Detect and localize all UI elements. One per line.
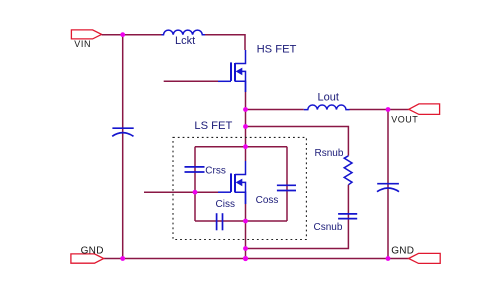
wire snubber tap: [246, 127, 349, 156]
wire Lout to VOUT: [350, 109, 409, 111]
capacitor Ciss: [216, 199, 235, 231]
wire VIN junction down to GND rail: [122, 35, 124, 259]
capacitor Crss: [185, 166, 226, 177]
junction LS loop top node: [243, 144, 248, 149]
terminal GND left: [71, 245, 104, 263]
junction LS gate node: [193, 190, 198, 195]
resistor Rsnub: [315, 148, 353, 185]
inductor Lout: [304, 92, 350, 110]
svg-text:LS FET: LS FET: [194, 120, 232, 132]
wire LS loop right branch: [286, 147, 288, 221]
junction GND left node: [120, 256, 125, 261]
capacitor input (Cin): [112, 128, 134, 136]
transistor LS FET: [218, 161, 246, 204]
capacitor Coss: [256, 185, 296, 206]
junction VOUT node: [386, 107, 391, 112]
svg-text:HS FET: HS FET: [257, 44, 297, 56]
capacitor Csnub: [314, 214, 358, 233]
wire Lckt to HS FET drain: [205, 35, 245, 50]
svg-text:Ciss: Ciss: [216, 199, 235, 210]
wire LS loop bottom rail: [195, 220, 287, 222]
svg-text:VOUT: VOUT: [391, 115, 418, 125]
wire main vertical switch node to LS FET drain: [245, 110, 247, 162]
junction GND center node: [243, 256, 248, 261]
junction switch node: [243, 107, 248, 112]
terminal VOUT: [391, 104, 439, 125]
capacitor output (Cout): [377, 184, 399, 192]
svg-text:Rsnub: Rsnub: [315, 148, 344, 159]
junction snubber return node: [243, 246, 248, 251]
wire HS FET source to switch node: [245, 92, 247, 110]
wire LS loop top rail: [195, 146, 287, 148]
inductor Lckt: [162, 30, 206, 47]
wire LS FET gate line: [144, 191, 218, 193]
wire VIN to Lckt (top rail): [102, 34, 162, 36]
svg-text:GND: GND: [81, 245, 104, 256]
wire HS FET gate stub: [164, 80, 218, 82]
wire LS loop left branch: [194, 147, 196, 221]
wire Rsnub to snubber return: [246, 185, 349, 249]
wire switch node to Lout: [246, 109, 304, 111]
wire VOUT junction down to GND rail: [387, 110, 389, 259]
box LS FET dashed: [173, 120, 306, 239]
junction LS loop bottom node: [243, 219, 248, 224]
junction snubber tap node: [243, 124, 248, 129]
junction VIN node: [120, 32, 125, 37]
svg-text:Lckt: Lckt: [175, 35, 195, 47]
wire GND rail: [104, 258, 409, 260]
wire LS FET source to GND rail: [245, 204, 247, 259]
junction GND right node: [386, 256, 391, 261]
svg-text:Csnub: Csnub: [314, 222, 343, 233]
svg-text:Crss: Crss: [205, 166, 226, 177]
transistor HS FET: [218, 44, 297, 92]
terminal VIN: [71, 30, 101, 49]
svg-text:VIN: VIN: [74, 39, 91, 49]
svg-text:GND: GND: [391, 245, 414, 256]
svg-text:Lout: Lout: [318, 92, 339, 104]
terminal GND right: [391, 245, 440, 263]
svg-text:Coss: Coss: [256, 195, 279, 206]
